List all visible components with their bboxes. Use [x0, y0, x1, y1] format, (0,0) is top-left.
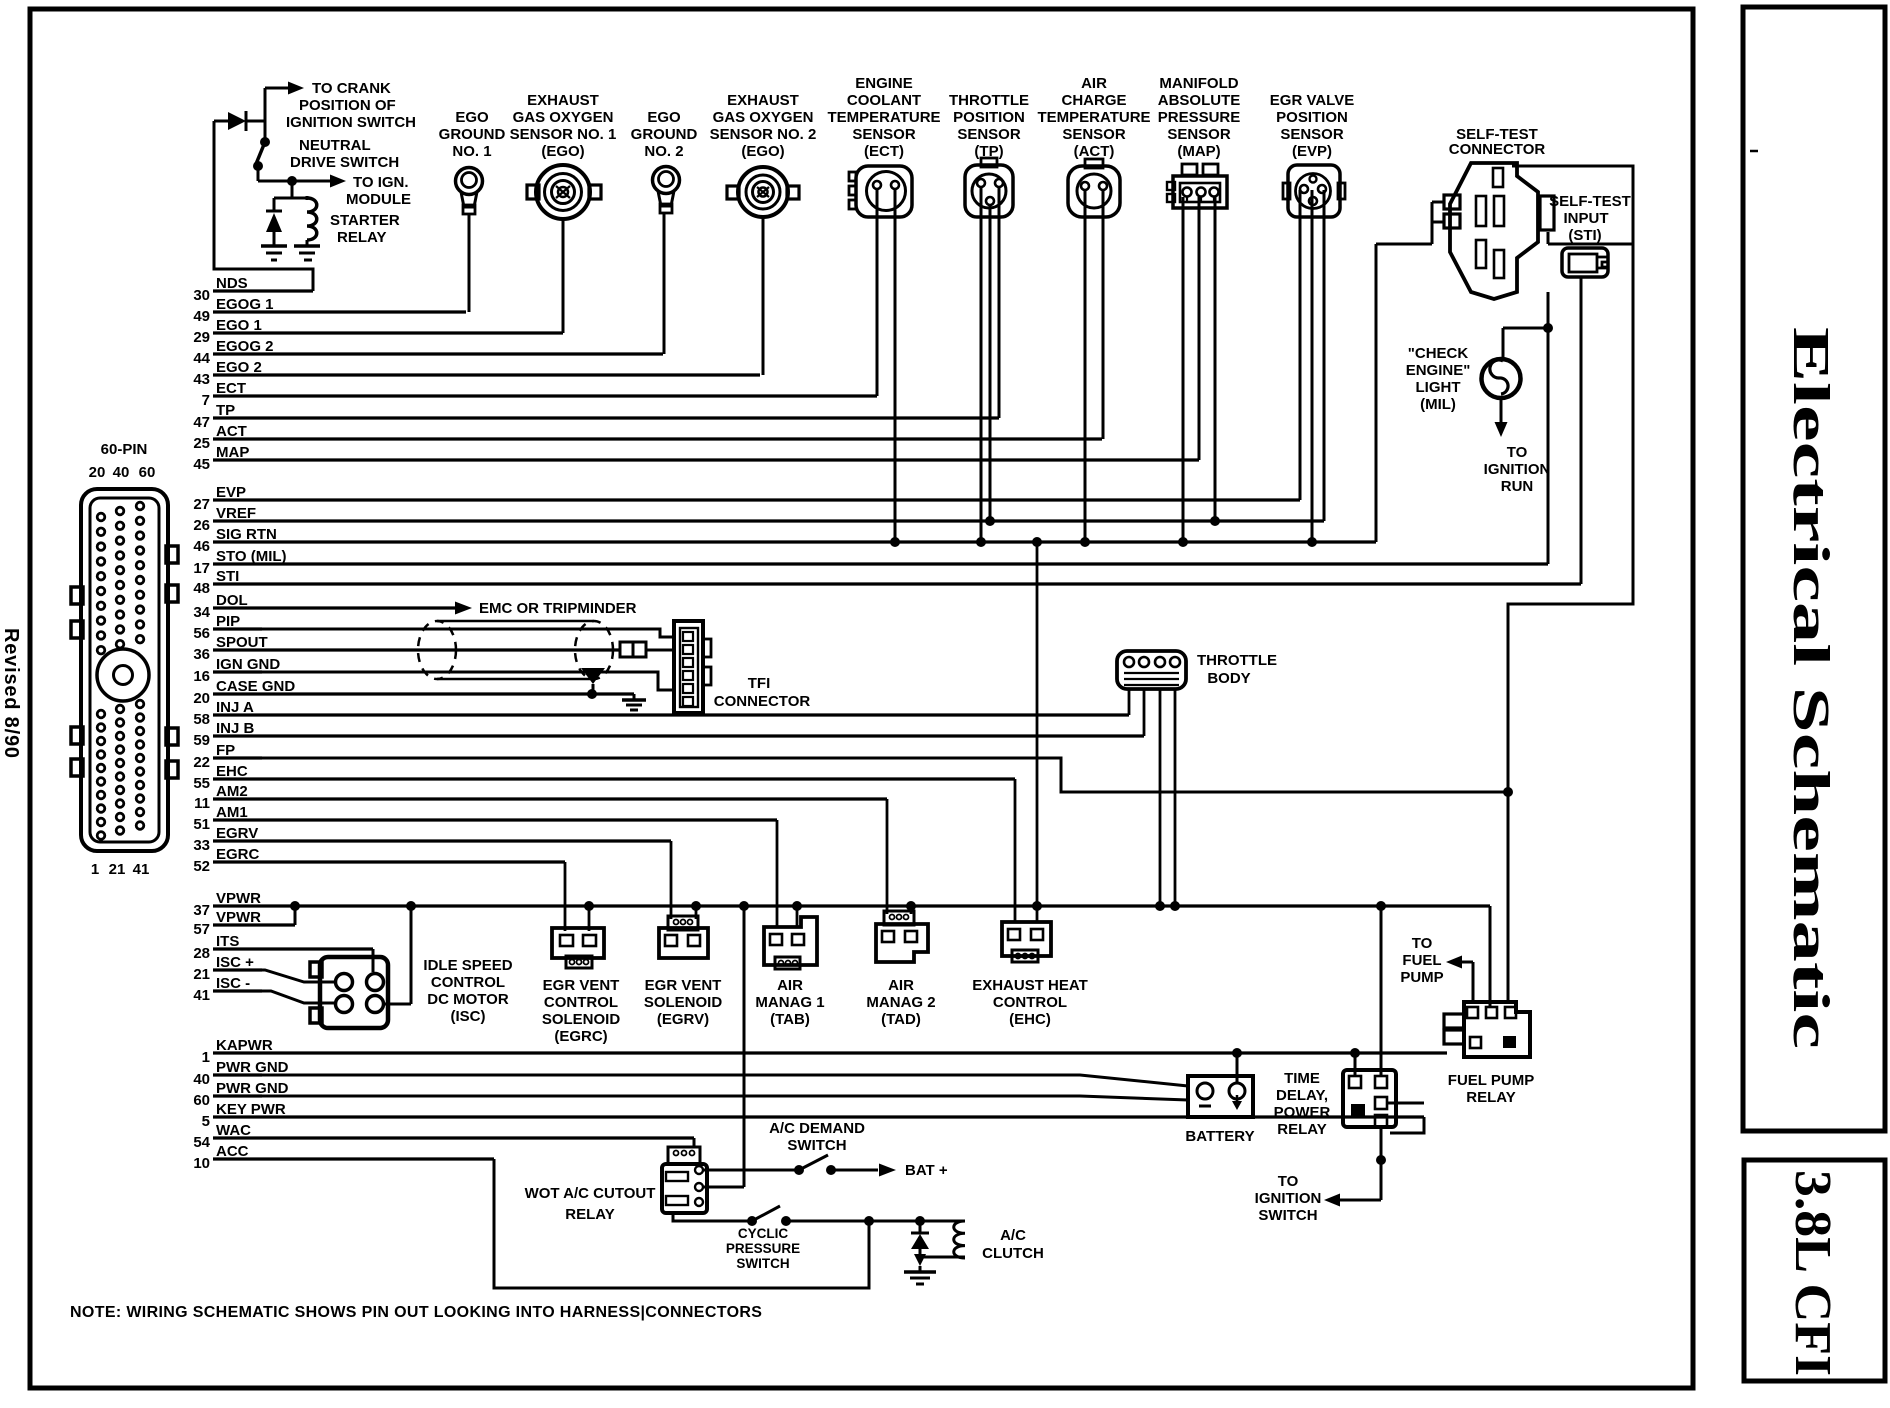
label SELF-TEST CONNECTOR [1449, 126, 1546, 158]
wire ACT sig rtn [1084, 190, 1087, 542]
wire pin 11 AM2 [194, 783, 887, 812]
wire TB pin1 to INJ A [1128, 689, 1131, 715]
svg-text:40: 40 [113, 464, 130, 481]
svg-text:28: 28 [193, 945, 210, 962]
wire pin 52 EGRC [193, 846, 565, 875]
wire pin 30 NDS [193, 275, 313, 304]
cyclic pressure switch [747, 1206, 791, 1226]
label TO IGNITION SWITCH [1255, 1173, 1322, 1224]
wire EGO sensor 1 [562, 219, 565, 333]
wire pin 33 EGRV [193, 825, 671, 854]
svg-text:(MIL): (MIL) [1420, 396, 1456, 413]
svg-text:(EHC): (EHC) [1009, 1011, 1051, 1028]
svg-text:58: 58 [193, 711, 210, 728]
label BAT + [905, 1162, 948, 1179]
wire pin 16 IGN GND [193, 656, 280, 685]
svg-text:PRESSURE: PRESSURE [726, 1241, 800, 1256]
wire pin 26 VREF [193, 505, 1324, 534]
svg-text:IGNITION: IGNITION [1255, 1190, 1322, 1207]
svg-text:TFI: TFI [748, 675, 771, 692]
svg-text:EXHAUST: EXHAUST [527, 92, 599, 109]
svg-text:22: 22 [193, 754, 210, 771]
wire EVP sig rtn [1311, 190, 1314, 542]
svg-text:47: 47 [193, 414, 210, 431]
TAB connector [764, 917, 817, 969]
right panel box (Electrical Schematic) [1743, 7, 1885, 1131]
wire EGRC riser [564, 862, 567, 931]
wire pin 1 KAPWR [202, 1037, 1447, 1066]
wire MIL to ignition run [1495, 398, 1508, 437]
diode D1 (crank feed) [214, 111, 265, 131]
connector ECT sensor [849, 166, 912, 217]
left margin note Revised 8/90 [0, 628, 22, 759]
label STARTER RELAY [330, 212, 400, 246]
STI connector [1562, 248, 1608, 277]
svg-text:EGO: EGO [455, 109, 489, 126]
svg-text:IGNITION: IGNITION [1484, 461, 1551, 478]
svg-text:(STI): (STI) [1568, 227, 1601, 244]
label EGO GROUND NO. 2 [631, 109, 698, 160]
svg-text:41: 41 [193, 987, 210, 1004]
wire PWR GND 60 route [213, 1096, 1188, 1100]
svg-text:RELAY: RELAY [1277, 1121, 1326, 1138]
svg-text:56: 56 [193, 625, 210, 642]
time delay power relay [1343, 1070, 1396, 1127]
svg-text:1: 1 [202, 1049, 210, 1066]
fuel pump relay [1444, 1002, 1530, 1057]
wire TP sig rtn [980, 187, 983, 542]
EHC connector [1002, 922, 1051, 962]
wire PIP route [213, 629, 676, 637]
shield dashed cylinder [418, 621, 613, 679]
svg-text:EGO: EGO [647, 109, 681, 126]
svg-text:STARTER: STARTER [330, 212, 400, 229]
wire MAP vref [1214, 197, 1217, 521]
wire WAC drop [693, 1138, 696, 1147]
wire fuel pump relay feed [1489, 906, 1492, 1007]
connector MAP sensor [1167, 164, 1227, 208]
inline connector on SPOUT [620, 642, 674, 657]
label TFI CONNECTOR [714, 675, 811, 710]
svg-text:EGR VENT: EGR VENT [543, 977, 620, 994]
wire demand switch to BAT+ [831, 1164, 896, 1177]
ground (starter relay coil) [294, 246, 320, 260]
label TO IGN. MODULE [346, 174, 411, 208]
svg-text:37: 37 [193, 902, 210, 919]
svg-text:(EGO): (EGO) [741, 143, 784, 160]
svg-text:60: 60 [193, 1092, 210, 1109]
svg-text:AIR: AIR [777, 977, 803, 994]
svg-text:SENSOR NO. 1: SENSOR NO. 1 [510, 126, 617, 143]
wire TP signal [998, 187, 1001, 418]
wire pin 58 INJ A [193, 699, 1129, 728]
svg-text:IGNITION SWITCH: IGNITION SWITCH [286, 114, 416, 131]
wire to fuel pump arrow [1446, 956, 1473, 1003]
svg-text:SENSOR: SENSOR [852, 126, 916, 143]
wire pin 20 CASE GND [193, 678, 634, 707]
junction dots VREF bus [985, 516, 1220, 526]
svg-text:59: 59 [193, 732, 210, 749]
self-test connector body [1444, 163, 1554, 299]
wire ECT signal [876, 189, 879, 396]
wire self-test right tab [1548, 232, 1633, 244]
svg-text:RELAY: RELAY [1466, 1089, 1515, 1106]
ring terminal EGO ground 2 [653, 167, 680, 214]
wire pin 48 STI [193, 568, 1581, 597]
wire FP line [213, 758, 1513, 797]
wire pin 21 ISC + [193, 954, 262, 983]
svg-text:EGR VENT: EGR VENT [645, 977, 722, 994]
wire pin 43 EGO 2 [193, 359, 760, 388]
svg-text:10: 10 [193, 1155, 210, 1172]
wire pin 25 ACT [193, 423, 1102, 452]
wire STO riser [1543, 292, 1553, 564]
svg-text:PRESSURE: PRESSURE [1158, 109, 1241, 126]
svg-text:21: 21 [193, 966, 210, 983]
wire ISC minus [213, 991, 337, 1003]
svg-text:MANAG 1: MANAG 1 [755, 994, 824, 1011]
wire IGN GND route [213, 672, 676, 690]
svg-text:CLUTCH: CLUTCH [982, 1245, 1044, 1262]
svg-text:ENGINE": ENGINE" [1406, 362, 1471, 379]
svg-text:CONTROL: CONTROL [544, 994, 618, 1011]
wire pin 55 EHC [193, 763, 1015, 792]
wire ISC plus [213, 970, 337, 982]
wire EVP signal [1299, 190, 1302, 500]
diode D2 (starter relay) [266, 211, 282, 246]
wire ACC route [494, 1159, 869, 1288]
connector ACT sensor [1068, 159, 1120, 217]
svg-text:RELAY: RELAY [337, 229, 386, 246]
svg-text:DELAY,: DELAY, [1276, 1087, 1328, 1104]
svg-text:THROTTLE: THROTTLE [1197, 652, 1277, 669]
wire pin 46 SIG RTN [193, 526, 1376, 555]
TAD connector [876, 911, 928, 962]
svg-text:GROUND: GROUND [439, 126, 506, 143]
svg-text:26: 26 [193, 517, 210, 534]
ground (case gnd) [622, 694, 646, 710]
wire EGRV vpwr riser [691, 901, 701, 919]
wire MAP signal [1198, 197, 1201, 460]
svg-text:(MAP): (MAP) [1177, 143, 1220, 160]
svg-text:TO: TO [1412, 935, 1433, 952]
label AIR MANAG 1 (TAB) [755, 977, 824, 1028]
junction dot time delay feed [1376, 901, 1386, 911]
svg-text:SENSOR: SENSOR [1167, 126, 1231, 143]
svg-text:20: 20 [89, 464, 106, 481]
wire ISC pin4 to VPWR [384, 901, 416, 1004]
throttle body connector [1117, 651, 1186, 689]
svg-text:CYCLIC: CYCLIC [738, 1226, 789, 1241]
right panel title 3.8L CFI [1784, 1170, 1841, 1376]
wire TB pin4 to VPWR [1170, 689, 1180, 911]
svg-text:5: 5 [202, 1113, 210, 1130]
connector EGO sensor 1 [527, 165, 601, 219]
junction dots SIG RTN bus [890, 537, 1317, 547]
label IDLE SPEED CONTROL DC MOTOR (ISC) [423, 957, 512, 1025]
bottom note [70, 1304, 762, 1321]
svg-text:NOTE: WIRING SCHEMATIC SHOWS P: NOTE: WIRING SCHEMATIC SHOWS PIN OUT LOO… [70, 1304, 762, 1321]
label THROTTLE POSITION SENSOR [949, 92, 1029, 160]
wire TAD vpwr riser [906, 901, 916, 914]
svg-text:(ISC): (ISC) [451, 1008, 486, 1025]
svg-text:TIME: TIME [1284, 1070, 1320, 1087]
svg-text:POSITION: POSITION [953, 109, 1025, 126]
wire pin 54 WAC [193, 1122, 694, 1151]
junction dot EHC vpwr [1032, 901, 1042, 911]
svg-text:(TAD): (TAD) [881, 1011, 921, 1028]
wire ACT signal [1102, 190, 1105, 439]
svg-text:NEUTRAL: NEUTRAL [299, 137, 371, 154]
svg-text:AIR: AIR [1081, 75, 1107, 92]
svg-text:(EGO): (EGO) [541, 143, 584, 160]
coil (starter relay) [307, 198, 317, 246]
connector TP sensor [965, 158, 1013, 217]
label WOT A/C CUTOUT RELAY [525, 1185, 656, 1223]
svg-text:RUN: RUN [1501, 478, 1534, 495]
wire pin 17 STO (MIL) [193, 548, 1548, 577]
wire time delay relay kapwr riser [1350, 1048, 1360, 1076]
svg-text:CONTROL: CONTROL [431, 974, 505, 991]
svg-text:"CHECK: "CHECK [1408, 345, 1469, 362]
label MANIFOLD ABSOLUTE PRESSURE SENSOR [1158, 75, 1241, 160]
label FUEL PUMP RELAY [1448, 1072, 1534, 1106]
svg-text:TO: TO [1278, 1173, 1299, 1190]
arrow EMC OR TRIPMINDER [455, 600, 637, 617]
TFI connector [674, 621, 711, 713]
svg-text:41: 41 [133, 861, 150, 878]
label AIR CHARGE TEMPERATURE SENSOR [1037, 75, 1150, 160]
svg-text:A/C DEMAND: A/C DEMAND [769, 1120, 865, 1137]
wire SIG RTN riser [1375, 244, 1378, 542]
svg-text:60-PIN: 60-PIN [101, 441, 148, 458]
svg-text:SENSOR: SENSOR [957, 126, 1021, 143]
label EXHAUST HEAT CONTROL (EHC) [972, 977, 1088, 1028]
wire TAB vpwr riser [792, 901, 802, 927]
svg-text:(ECT): (ECT) [864, 143, 904, 160]
svg-text:ENGINE: ENGINE [855, 75, 913, 92]
wire pin 5 KEY PWR [202, 1101, 1424, 1130]
ISC motor connector [310, 957, 388, 1028]
svg-text:SWITCH: SWITCH [1258, 1207, 1317, 1224]
svg-text:POWER: POWER [1274, 1104, 1331, 1121]
svg-text:INPUT: INPUT [1564, 210, 1609, 227]
svg-text:1: 1 [91, 861, 99, 878]
svg-text:7: 7 [202, 392, 210, 409]
svg-text:GAS OXYGEN: GAS OXYGEN [513, 109, 614, 126]
wire STI to pin 48 [1580, 277, 1583, 584]
svg-text:29: 29 [193, 329, 210, 346]
svg-text:49: 49 [193, 308, 210, 325]
svg-text:COOLANT: COOLANT [847, 92, 921, 109]
wire WOT relay to demand switch [703, 1169, 799, 1172]
svg-text:SENSOR: SENSOR [1062, 126, 1126, 143]
right panel small mark [1750, 150, 1758, 153]
ring terminal EGO ground 1 [456, 168, 483, 215]
wire pin 28 ITS [193, 933, 373, 962]
wire pin 10 ACC [193, 1143, 494, 1172]
svg-text:TO CRANK: TO CRANK [312, 80, 391, 97]
svg-text:CHARGE: CHARGE [1061, 92, 1126, 109]
svg-text:46: 46 [193, 538, 210, 555]
coil (A/C clutch) [920, 1221, 965, 1258]
battery [1188, 1076, 1253, 1117]
label EGO GROUND NO. 1 [439, 109, 506, 160]
svg-text:GROUND: GROUND [631, 126, 698, 143]
svg-text:40: 40 [193, 1071, 210, 1088]
label CHECK ENGINE LIGHT (MIL) [1406, 345, 1471, 413]
svg-text:PUMP: PUMP [1400, 969, 1443, 986]
wire relay to ignition switch [1324, 1127, 1386, 1207]
svg-text:SELF-TEST: SELF-TEST [1549, 193, 1631, 210]
wire TB pin3 to VPWR [1155, 689, 1165, 911]
lamp MIL [1482, 359, 1521, 398]
wire pin 57 VPWR [193, 909, 295, 938]
svg-text:EGR VALVE: EGR VALVE [1270, 92, 1354, 109]
svg-text:(EGRV): (EGRV) [657, 1011, 709, 1028]
svg-text:34: 34 [193, 604, 210, 621]
svg-text:EMC OR TRIPMINDER: EMC OR TRIPMINDER [479, 600, 637, 617]
wire PWR GND 40 route [213, 1075, 1188, 1086]
wire TAB riser [776, 820, 779, 927]
ground (starter relay diode) [261, 246, 287, 260]
svg-text:SOLENOID: SOLENOID [644, 994, 723, 1011]
wire TAD riser [886, 799, 889, 914]
wire pin 44 EGOG 2 [193, 338, 663, 367]
wire SIG RTN to EHC vertical [1036, 542, 1039, 922]
svg-text:WOT A/C CUTOUT: WOT A/C CUTOUT [525, 1185, 656, 1202]
wire MAP sig rtn [1182, 197, 1185, 542]
wire cyclic switch to clutch [786, 1216, 925, 1226]
wire self-test top to fuel pump relay [1508, 166, 1633, 1002]
svg-text:52: 52 [193, 858, 210, 875]
svg-text:GAS OXYGEN: GAS OXYGEN [713, 109, 814, 126]
wire TP vref [989, 205, 992, 521]
label SELF-TEST INPUT (STI) [1549, 193, 1631, 244]
wire time delay relay vpwr riser [1380, 906, 1383, 1076]
svg-text:TO: TO [1507, 444, 1528, 461]
label EXHAUST GAS OXYGEN SENSOR NO. 2 [710, 92, 817, 160]
svg-text:ABSOLUTE: ABSOLUTE [1158, 92, 1241, 109]
svg-text:POSITION OF: POSITION OF [299, 97, 396, 114]
svg-text:48: 48 [193, 580, 210, 597]
svg-text:(EGRC): (EGRC) [554, 1028, 607, 1045]
label NEUTRAL DRIVE SWITCH [290, 137, 399, 171]
svg-text:FUEL PUMP: FUEL PUMP [1448, 1072, 1534, 1089]
svg-text:43: 43 [193, 371, 210, 388]
svg-text:44: 44 [193, 350, 210, 367]
wire pin 22 FP [193, 742, 262, 771]
svg-text:LIGHT: LIGHT [1416, 379, 1461, 396]
svg-text:Revised 8/90: Revised 8/90 [0, 628, 22, 759]
ECA 60-pin connector [71, 441, 178, 878]
diode D3 (A/C clutch) [911, 1221, 929, 1272]
svg-text:RELAY: RELAY [565, 1206, 614, 1223]
wire EGO sensor 2 [762, 217, 765, 375]
wire ECT sig rtn [894, 189, 897, 542]
wire to crank arrow [265, 82, 304, 143]
EGRC solenoid connector [552, 928, 604, 968]
svg-text:DRIVE SWITCH: DRIVE SWITCH [290, 154, 399, 171]
wire VPWR57 join [290, 901, 300, 925]
svg-text:IDLE SPEED: IDLE SPEED [423, 957, 512, 974]
svg-text:SOLENOID: SOLENOID [542, 1011, 621, 1028]
svg-text:CONTROL: CONTROL [993, 994, 1067, 1011]
wire pin 34 DOL [193, 592, 455, 621]
svg-text:THROTTLE: THROTTLE [949, 92, 1029, 109]
wire EGRV riser [670, 841, 673, 919]
svg-text:BAT +: BAT + [905, 1162, 948, 1179]
wire EHC riser [1014, 779, 1017, 922]
svg-text:CONNECTOR: CONNECTOR [714, 693, 811, 710]
svg-text:16: 16 [193, 668, 210, 685]
svg-text:SWITCH: SWITCH [736, 1256, 789, 1271]
svg-text:SENSOR NO. 2: SENSOR NO. 2 [710, 126, 817, 143]
svg-text:TEMPERATURE: TEMPERATURE [827, 109, 940, 126]
WOT AC cutout relay [662, 1147, 707, 1213]
wire MIL branch [1503, 328, 1548, 360]
wire battery kapwr riser [1232, 1048, 1242, 1083]
wire EGRC vpwr riser [584, 901, 594, 931]
label EGR VENT CONTROL SOLENOID (EGRC) [542, 977, 621, 1045]
wire pin 37 VPWR [193, 890, 1490, 919]
svg-text:BODY: BODY [1207, 670, 1250, 687]
wire key pwr to relay loop [1387, 1103, 1424, 1133]
label EGR VALVE POSITION SENSOR [1270, 92, 1354, 160]
svg-text:DC MOTOR: DC MOTOR [427, 991, 509, 1008]
svg-text:Electrical Schematic: Electrical Schematic [1782, 327, 1839, 1049]
wire pin 59 INJ B [193, 720, 1144, 749]
svg-text:SENSOR: SENSOR [1280, 126, 1344, 143]
wire self-test left pins [1376, 202, 1444, 244]
label TO FUEL PUMP [1400, 935, 1443, 986]
wire WOT relay vpwr [703, 901, 749, 1187]
svg-text:55: 55 [193, 775, 210, 792]
wire pin 49 EGOG 1 [193, 296, 466, 325]
svg-text:SWITCH: SWITCH [787, 1137, 846, 1154]
ground (A/C clutch) [904, 1272, 936, 1284]
svg-text:20: 20 [193, 690, 210, 707]
svg-text:EXHAUST HEAT: EXHAUST HEAT [972, 977, 1088, 994]
connector EVP sensor [1283, 165, 1345, 217]
wire TB pin2 to INJ B [1143, 689, 1146, 736]
svg-text:POSITION: POSITION [1276, 109, 1348, 126]
wire EGO ground 2 [663, 213, 666, 354]
svg-text:FUEL: FUEL [1402, 952, 1441, 969]
svg-text:45: 45 [193, 456, 210, 473]
wire pin 7 ECT [202, 380, 877, 409]
right panel title Electrical Schematic [1782, 327, 1839, 1049]
svg-text:NO. 1: NO. 1 [452, 143, 491, 160]
label EXHAUST GAS OXYGEN SENSOR NO. 1 [510, 92, 617, 160]
AC demand switch [794, 1155, 836, 1175]
EGRV solenoid connector [659, 916, 708, 958]
wire pin 56 PIP [193, 613, 262, 642]
wire EVP vref [1323, 190, 1326, 521]
svg-text:(ACT): (ACT) [1074, 143, 1115, 160]
svg-text:36: 36 [193, 646, 210, 663]
neutral drive switch blade [253, 137, 270, 171]
label A/C DEMAND SWITCH [769, 1120, 865, 1154]
svg-text:TEMPERATURE: TEMPERATURE [1037, 109, 1150, 126]
label A/C CLUTCH [982, 1227, 1044, 1262]
svg-text:MODULE: MODULE [346, 191, 411, 208]
label THROTTLE BODY [1197, 652, 1277, 687]
wire pin 51 AM1 [193, 804, 777, 833]
label EGR VENT SOLENOID (EGRV) [644, 977, 723, 1028]
svg-text:3.8L CFI: 3.8L CFI [1784, 1170, 1841, 1376]
wire pin 40 PWR GND [193, 1059, 288, 1088]
